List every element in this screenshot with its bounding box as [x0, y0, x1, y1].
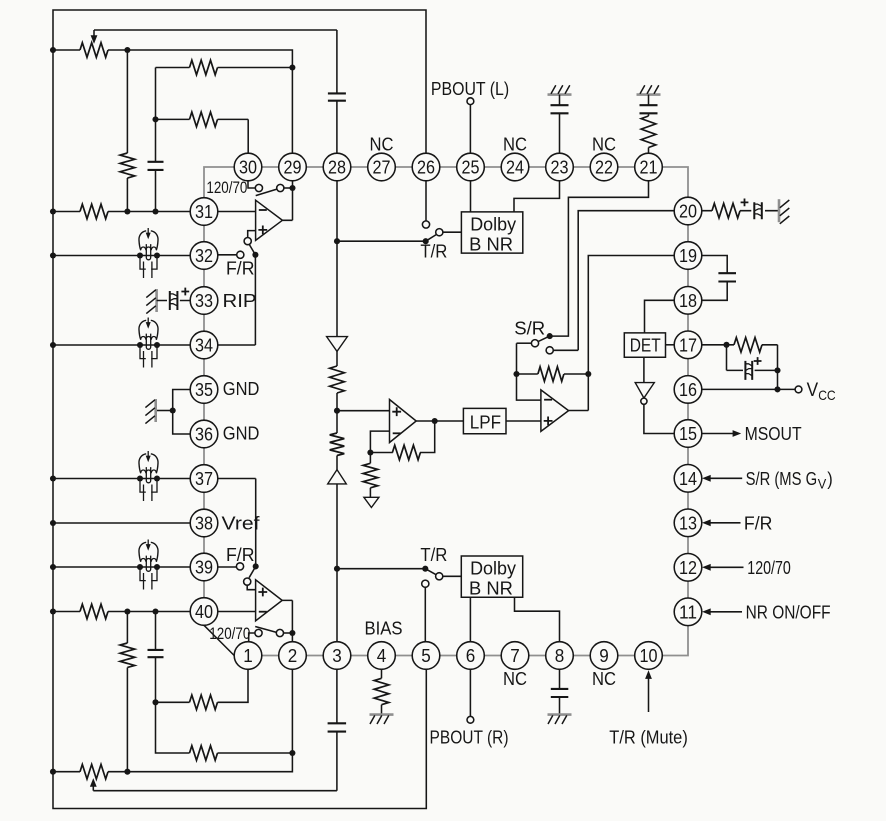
resistor R9 y753 [190, 746, 218, 761]
svg-text:27: 27 [373, 157, 391, 178]
switch 120/70 top contact B [277, 184, 284, 191]
pin 32 [190, 242, 218, 270]
svg-text:19: 19 [679, 245, 697, 266]
pin 11 [674, 598, 702, 626]
svg-text:NC: NC [592, 668, 616, 689]
switch S/R contact A [531, 340, 538, 347]
svg-text:6: 6 [466, 645, 476, 666]
switch T/R bottom contact A [422, 580, 429, 587]
wire pin31 to U1 inverting input [218, 211, 256, 213]
svg-text:NR ON/OFF: NR ON/OFF [746, 601, 831, 622]
svg-text:S/R: S/R [514, 318, 545, 339]
wire x155 to y753 line [156, 702, 293, 753]
switch 120/70 top lever [256, 189, 277, 196]
switch F/R bottom contact D [236, 563, 243, 570]
svg-text:31: 31 [195, 201, 213, 222]
pin 29 [279, 153, 307, 181]
block LPF box [463, 408, 506, 433]
label NC pin24 [503, 134, 527, 155]
label NC pin22 [592, 134, 616, 155]
label RIP pin33 [223, 290, 257, 311]
node dot fb right [585, 371, 591, 377]
label 120/70 pin12 [747, 557, 791, 578]
wire pin6 to PBOUT R [469, 669, 471, 716]
wire U3 feedback down [420, 421, 435, 453]
wire x155 column [155, 68, 157, 212]
wire IC pin chain (gray outline through pins) [204, 167, 688, 656]
pin 20 [674, 197, 702, 225]
pin 12 [674, 554, 702, 582]
node dot x155 y119.4 [152, 116, 158, 122]
node dot Vcc junction [774, 386, 780, 392]
wire pin8 to cap [559, 669, 561, 689]
wire y67.5 segs [156, 67, 293, 69]
node dot U3 out [432, 418, 438, 424]
resistor R11 pin28 col [330, 366, 345, 393]
node dot F/R bottom common [253, 563, 259, 569]
svg-text:36: 36 [195, 424, 213, 445]
svg-text:B NR: B NR [469, 578, 513, 599]
op-amp U4 [541, 390, 569, 432]
wire gnd to cap pin23 [559, 95, 561, 106]
wire F/R common down to pin34 line [218, 255, 255, 345]
wire T/R Mute arrow pin10 [645, 670, 652, 712]
wire T/R contactB to Dolby1 [443, 231, 462, 233]
node dot 120/70 junction x292 y188 [289, 185, 295, 191]
wire U2 output to pin2 column [282, 600, 292, 641]
switch 120/70 bottom lever [255, 627, 276, 633]
pin 2 [279, 642, 307, 670]
switch 120/70 bottom contact A [255, 629, 262, 636]
wire bracket to ground [157, 410, 173, 412]
wire pin34 line from border [53, 344, 190, 346]
wire F/R arrow pin13 [702, 519, 740, 526]
node dot border y611 [50, 608, 56, 614]
wire NR ON/OFF arrow pin11 [702, 608, 742, 615]
wire x127 column [126, 50, 128, 212]
wire DET out to pin15 [644, 404, 674, 433]
svg-text:1: 1 [243, 645, 253, 666]
svg-text:8: 8 [555, 645, 565, 666]
svg-text:LPF: LPF [470, 411, 501, 432]
node dot feedback [367, 449, 373, 455]
label 120/70 bottom [209, 625, 250, 643]
node dot border y478 [50, 475, 56, 481]
switch S/R lever [539, 336, 550, 341]
wire contactB2 to junction [284, 632, 293, 634]
tape head H1 (pin 32) [137, 228, 160, 278]
wire contactB to junction [284, 187, 293, 189]
signal arrow down (pin28 column) [327, 337, 348, 352]
svg-text:33: 33 [195, 290, 213, 311]
wire pin40-pin1 diagonal link [204, 625, 234, 655]
wire pin25 to Dolby1 [470, 181, 472, 212]
resistor R8 y702 [190, 695, 218, 710]
resistor R14 to vref gnd [363, 463, 378, 487]
switch T/R top contact A [422, 221, 429, 228]
wire Dolby1 top to pin23 [514, 181, 560, 212]
label + C10 [741, 199, 749, 207]
resistor R13 U3 feedback [392, 445, 420, 460]
svg-text:NC: NC [503, 668, 527, 689]
wire pin32 to F/R contact [218, 254, 237, 256]
label T/R (Mute) [609, 726, 688, 747]
ground G6 (pin 4) [370, 715, 394, 724]
wire pin19-18 capacitor bridge [702, 256, 727, 301]
wire U4 - input feedback [517, 343, 541, 400]
ground G7 (pin 8) [548, 715, 572, 724]
node dot border y771 [50, 769, 56, 775]
op-amp U2 [256, 580, 283, 621]
wire S/R(MS Gv) arrow [702, 475, 742, 482]
node dot x155 y611 [152, 608, 158, 614]
tape head H4 (pin 39) [137, 540, 160, 590]
node dot border y567 [50, 564, 56, 570]
wire to gnd resistor [369, 453, 371, 464]
wire seg [336, 351, 338, 366]
wire pin38 Vref line [53, 522, 190, 524]
node dot x155 y702 [152, 699, 158, 705]
label NC pin9 [592, 668, 616, 689]
node dot border y523 [50, 520, 56, 526]
svg-text:3: 3 [332, 645, 342, 666]
label DET [630, 334, 661, 355]
svg-text:10: 10 [640, 645, 658, 666]
label Vcc [807, 379, 836, 403]
wire pin1 lower loop [156, 669, 249, 702]
switch F/R bottom lever [249, 566, 256, 577]
resistor R2 y67.5 [190, 60, 218, 75]
wire cap to gnd pin8 [559, 697, 561, 715]
pin 9 [590, 642, 618, 670]
node dot T/R top common [423, 238, 429, 244]
switch S/R contact B [546, 347, 553, 354]
svg-text:): ) [827, 468, 833, 489]
resistor R15 U4 feedback [538, 367, 564, 382]
node dot pin17 net right [774, 367, 780, 373]
wire pin18 to DET [645, 300, 675, 333]
pin 33 [190, 287, 218, 315]
svg-text:BIAS: BIAS [365, 617, 403, 638]
resistor R4 x127 [120, 153, 135, 178]
wire ecap branch [727, 345, 778, 390]
wire pin28 column upper [336, 181, 338, 336]
wire pin39 to F/R contact [218, 566, 236, 568]
wire pin40 to U2 inverting input [218, 611, 256, 613]
label GND pin35 [223, 378, 260, 399]
node dot T/R bottom common [422, 566, 428, 572]
node dot x127 y611 [124, 608, 130, 614]
svg-text:NC: NC [503, 134, 527, 155]
svg-text:120/70: 120/70 [209, 625, 250, 643]
wire pot bottom left [53, 771, 80, 773]
wire pin30 to switch [248, 181, 255, 188]
terminal PBOUT L circle [467, 98, 474, 105]
signal arrow down DET [635, 383, 654, 398]
wire T/R top from pin28 junction [337, 240, 426, 242]
wire pin4 to resistor [381, 669, 383, 678]
pin 24 [501, 153, 529, 181]
svg-text:B NR: B NR [469, 234, 513, 255]
svg-text:7: 7 [510, 645, 520, 666]
svg-text:22: 22 [595, 157, 613, 178]
node dot border y345 [50, 342, 56, 348]
capacitor C5 pin3 bottom [328, 723, 347, 731]
label Vref pin38 [222, 512, 261, 533]
node dot border y50 [50, 47, 56, 53]
wire cap to pin23 [559, 113, 561, 153]
svg-text:28: 28 [328, 157, 346, 178]
wire pin3 column lower [336, 484, 338, 642]
svg-text:29: 29 [284, 157, 302, 178]
resistor R16 pin21 top [641, 116, 656, 147]
wire S/R contactA to fb [517, 342, 532, 344]
wire y119.4 segs [156, 119, 249, 153]
wire outer loop border (pin 26 top, around left, bottom to pin 5) [53, 10, 426, 809]
node dot mixer input [334, 408, 340, 414]
pin 40 [190, 598, 218, 626]
svg-text:120/70: 120/70 [206, 179, 247, 197]
label S/R (MS Gv) [746, 468, 833, 492]
tape head H3 (pin 37) [137, 451, 160, 501]
label NR ON/OFF [746, 601, 831, 622]
svg-text:MSOUT: MSOUT [745, 423, 802, 444]
wire res to gnd pin4 [381, 705, 383, 715]
label PBOUT (L) [431, 78, 509, 99]
wire pot bottom wiper [90, 778, 97, 791]
block Dolby B NR top box [461, 212, 522, 253]
wire LPF to U4 + input [506, 420, 541, 422]
label Dolby2 line1 [470, 557, 517, 578]
wire U1 + input from F/R [248, 231, 256, 238]
wire res to pin21 [648, 148, 650, 154]
resistor R3 y119.4 [190, 112, 218, 127]
wire pin33 line [157, 300, 191, 302]
svg-text:26: 26 [417, 157, 435, 178]
wire x127 bottom column [126, 612, 128, 772]
pin 34 [190, 331, 218, 359]
pin 7 [501, 642, 529, 670]
wire gnd to cap pin21 [648, 95, 650, 106]
svg-text:40: 40 [195, 601, 213, 622]
pin 16 [674, 376, 702, 404]
capacitor C3 electrolytic pin33 [170, 291, 178, 310]
vref-ground triangle U3 [364, 497, 379, 507]
wire pin16 Vcc line [702, 388, 795, 390]
wire pin1 to switch bottom [249, 633, 255, 642]
wire U3 output [416, 420, 463, 422]
wire pins35/36 bracket [173, 390, 191, 435]
pin 37 [190, 465, 218, 493]
wire seg4 [369, 488, 371, 498]
wire S/R contactB to pin20 [553, 211, 674, 351]
svg-text:9: 9 [599, 645, 609, 666]
wire cap to res pin21 [648, 113, 650, 116]
block Dolby B NR bottom box [461, 556, 522, 597]
node dot fb left [513, 371, 519, 377]
svg-text:T/R: T/R [420, 544, 447, 565]
label + C9 [754, 357, 762, 365]
svg-text:2: 2 [288, 645, 298, 666]
wire y790 line to pin3 column [93, 732, 337, 791]
wire seg3 [336, 456, 338, 470]
op-amp U3 [390, 400, 417, 443]
switch T/R top contact B [436, 229, 443, 236]
label BIAS [365, 617, 403, 638]
wire feedback to - input [370, 431, 392, 452]
switch T/R bottom contact B [436, 573, 443, 580]
node dot F/R top common [252, 252, 258, 258]
svg-text:V: V [807, 379, 819, 401]
wire pin2 column down [108, 669, 292, 771]
label GND pin36 [223, 422, 260, 443]
pin 18 [674, 287, 702, 315]
wire U4 output up to pin19 [569, 256, 675, 411]
pin 36 [190, 420, 218, 448]
wire pot line left [53, 49, 80, 51]
wire PBOUT L to pin25 [469, 105, 471, 154]
terminal Vcc circle [795, 386, 802, 393]
label + C3 [181, 288, 189, 296]
svg-text:GND: GND [223, 422, 260, 443]
node dot 120/70 bottom junction [289, 630, 295, 636]
label F/R bottom [226, 544, 255, 565]
svg-text:15: 15 [679, 423, 697, 444]
svg-text:21: 21 [640, 157, 658, 178]
pin 35 [190, 376, 218, 404]
pin 10 [635, 642, 663, 670]
node dot x127 y50 [124, 47, 130, 53]
wire pin39 line from border [53, 566, 190, 568]
label 120/70 top [206, 179, 247, 197]
switch F/R top contact C [244, 238, 251, 245]
wire Dolby2 to pin6 [469, 597, 471, 641]
capacitor C10 electrolytic pin20 [754, 202, 762, 219]
wire T/R contactB2 to Dolby2 [443, 575, 462, 577]
ground G4 (pin 21 top) [637, 85, 661, 94]
svg-text:DET: DET [630, 334, 661, 355]
block DET box [624, 333, 665, 357]
svg-text:120/70: 120/70 [747, 557, 791, 578]
node dot S/R common [547, 333, 553, 339]
resistor R5 pin31 line [80, 204, 108, 219]
pin 17 [674, 331, 702, 359]
wire pin32 line from border [53, 255, 190, 257]
node dot pin17 net left [723, 342, 729, 348]
wire U2 + input [247, 585, 255, 590]
capacitor C6 pin23 [551, 105, 569, 113]
pin 4 [368, 642, 396, 670]
switch F/R top lever [249, 245, 255, 255]
pin 27 [368, 153, 396, 181]
svg-text:S/R (MS G: S/R (MS G [746, 468, 818, 489]
capacitor C1 x155 [148, 162, 164, 170]
resistor R19 BIAS [374, 678, 389, 704]
pin 26 [412, 153, 440, 181]
wire pin20 right network [702, 210, 779, 212]
pin 39 [190, 553, 218, 581]
signal arrow up (pin3 column) [328, 470, 347, 484]
svg-text:Vref: Vref [222, 512, 261, 533]
wire MSOUT arrow [702, 430, 741, 437]
wire x155 bottom column [155, 612, 157, 703]
svg-text:24: 24 [506, 157, 524, 178]
svg-text:14: 14 [679, 468, 697, 489]
label LPF [470, 411, 501, 432]
pin 23 [546, 153, 574, 181]
switch T/R top lever [426, 235, 437, 242]
switch 120/70 top contact A [255, 184, 262, 191]
switch 120/70 bottom contact B [276, 629, 283, 636]
wire pin3 to cap [336, 669, 338, 723]
svg-text:25: 25 [462, 157, 480, 178]
pin 15 [674, 420, 702, 448]
node dot border y255 [50, 252, 56, 258]
svg-text:5: 5 [421, 645, 431, 666]
wire T/R bottom from pin3 junction [337, 568, 425, 570]
wire DET to pin17 [666, 344, 675, 346]
label Dolby1 line2 [469, 234, 513, 255]
capacitor C8 pins19/18 [718, 273, 736, 281]
wire T/R contactA2 to pin5 [424, 587, 426, 641]
tape head H2 (pin 34) [137, 318, 160, 368]
svg-text:17: 17 [679, 334, 697, 355]
svg-text:RIP: RIP [223, 290, 257, 311]
contact circle DET out [641, 398, 647, 404]
wire top wiper line y=30 [94, 29, 337, 31]
label MSOUT [745, 423, 802, 444]
svg-text:Dolby: Dolby [470, 557, 517, 578]
label Dolby2 line2 [469, 578, 513, 599]
switch F/R bottom contact C [244, 578, 251, 585]
ground G2 (pins 35/36) [145, 399, 155, 424]
svg-text:34: 34 [195, 335, 213, 356]
label F/R pin13 [744, 512, 773, 533]
label T/R bottom [420, 544, 447, 565]
terminal PBOUT R circle [467, 716, 474, 723]
capacitor C4 x155 bottom [148, 650, 164, 657]
pin 31 [190, 198, 218, 226]
switch F/R top contact D [237, 251, 244, 258]
capacitor C11 pin8 [551, 689, 569, 697]
svg-text:16: 16 [679, 379, 697, 400]
wire pin40 line [53, 611, 190, 613]
wire Dolby2 to pin8 [515, 597, 560, 641]
wire pin28 top cap column [336, 30, 338, 154]
svg-text:PBOUT (R): PBOUT (R) [430, 726, 509, 747]
node dot bracket [170, 407, 176, 413]
svg-text:4: 4 [377, 645, 387, 666]
svg-text:T/R (Mute): T/R (Mute) [609, 726, 688, 747]
wire pin37 line from border [53, 478, 190, 480]
wire DET output down [643, 357, 645, 382]
svg-text:GND: GND [223, 378, 260, 399]
svg-text:39: 39 [195, 557, 213, 578]
pin 30 [234, 153, 262, 181]
pin 6 [457, 642, 485, 670]
svg-text:23: 23 [551, 157, 569, 178]
svg-text:V: V [818, 477, 827, 492]
wire mixer node to U3 + input [337, 410, 390, 412]
potentiometer R1 [80, 43, 108, 58]
node dot T/R top junction x337 [334, 238, 340, 244]
pin 1 [234, 642, 262, 670]
svg-text:32: 32 [195, 245, 213, 266]
wire T/R contactA to pin26 [425, 181, 427, 221]
wire pot wiper drop [91, 30, 98, 44]
pin 28 [323, 153, 351, 181]
resistor R10 pot bottom [80, 764, 108, 779]
